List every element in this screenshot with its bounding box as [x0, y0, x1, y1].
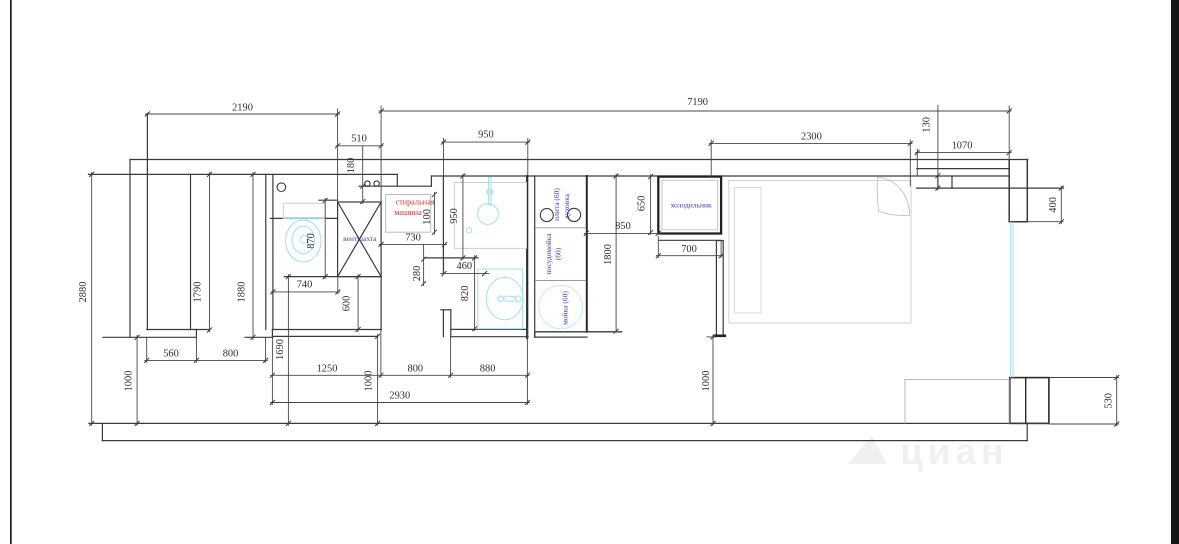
bottom right connector	[1026, 423, 1028, 440]
dim 400 line	[1060, 186, 1062, 224]
watermark	[848, 431, 1008, 472]
svg-text:циан: циан	[900, 431, 1008, 472]
dim 180 line	[362, 146, 364, 204]
dim 650 line	[650, 174, 652, 235]
dim 1690 line	[287, 274, 289, 425]
svg-text:1790: 1790	[192, 282, 203, 303]
toilet top ledge line	[319, 199, 338, 201]
svg-text:2880: 2880	[78, 282, 89, 303]
toilet tank	[283, 203, 325, 218]
dim 1000 left line	[136, 335, 138, 426]
corridor band mid top	[272, 329, 381, 331]
svg-text:2930: 2930	[389, 391, 410, 402]
dim 950 top line	[441, 141, 530, 143]
wall left inner	[146, 114, 148, 330]
shower room bottom wall	[424, 257, 478, 259]
ext 1250 left / 2930	[271, 336, 273, 404]
wall stub under 1880	[245, 336, 273, 338]
right photo black bar	[1171, 0, 1179, 544]
bottom left connector	[101, 423, 103, 440]
corridor band mid left jamb	[271, 330, 273, 337]
wall window niche bottom	[917, 187, 1064, 189]
dim 100 line	[433, 192, 435, 234]
svg-text:280: 280	[412, 266, 423, 282]
bath bottom band	[451, 328, 527, 330]
dim 280 line	[423, 244, 425, 286]
wall niche bottom	[359, 185, 431, 187]
dim 1880 line	[252, 172, 254, 340]
riser circle 2	[374, 181, 379, 186]
washbasin oval	[486, 277, 523, 319]
svg-text:600: 600	[341, 296, 352, 312]
svg-text:530: 530	[1103, 393, 1114, 409]
svg-text:650: 650	[636, 196, 647, 212]
ext 530 bottom	[1049, 423, 1119, 425]
balcony gray rect	[905, 380, 1009, 424]
kitchen counter divider 1	[536, 227, 585, 229]
dim 700 line	[656, 255, 723, 257]
dimension texts horizontal	[163, 97, 972, 402]
kitchen-room wall bottom cap	[715, 334, 725, 337]
left photo edge line	[10, 0, 12, 544]
toilet duct line	[271, 217, 338, 219]
right pier right	[1026, 160, 1028, 222]
bed pillow	[735, 188, 762, 314]
wall bottom-left band bottom	[103, 336, 196, 338]
wall top inner right	[431, 175, 938, 177]
svg-text:510: 510	[351, 134, 367, 145]
fridge box	[658, 177, 721, 234]
dim 460 line	[440, 273, 489, 275]
dim 7190 line	[379, 110, 1012, 112]
svg-text:духовка: духовка	[562, 193, 571, 219]
kitchen sink circle	[539, 285, 583, 329]
ext at 450.4	[450, 337, 452, 378]
ext 560 left	[146, 337, 148, 362]
corridor band mid bottom	[272, 335, 377, 337]
dim 130 line	[937, 105, 939, 190]
toilet room bottom line	[284, 276, 381, 278]
hall lamp circle	[277, 183, 286, 192]
vanity unit rect	[478, 269, 523, 329]
svg-text:посудомойка: посудомойка	[544, 233, 553, 275]
svg-text:холодильник: холодильник	[671, 200, 712, 209]
wall jamb	[195, 330, 197, 338]
svg-text:1000: 1000	[124, 371, 135, 392]
ext 460 mini	[443, 258, 445, 274]
svg-text:плита (60): плита (60)	[552, 188, 561, 221]
svg-text:880: 880	[480, 363, 496, 374]
svg-text:1800: 1800	[603, 244, 614, 265]
kitchen counter divider 2	[536, 280, 585, 282]
wall window niche step	[937, 176, 939, 188]
bottom-right box	[1010, 378, 1049, 424]
label texts	[343, 188, 712, 325]
dim 2880 line	[91, 172, 93, 426]
dim 510 line	[336, 145, 384, 147]
ext line vent left up	[337, 109, 339, 203]
bottom second line	[102, 440, 1027, 442]
svg-text:730: 730	[405, 232, 421, 243]
shower head circle	[486, 188, 494, 196]
riser circle 1	[365, 181, 370, 186]
shower small circle	[466, 228, 471, 233]
wall window sill line	[917, 168, 1009, 170]
svg-text:130: 130	[921, 117, 932, 133]
toilet bowl outer	[286, 220, 321, 262]
ext at 380.6	[380, 330, 382, 378]
dim 560-800 line	[144, 359, 268, 361]
window glazing lines	[1009, 222, 1011, 378]
ext 800 right	[265, 337, 267, 362]
ext 700 left	[657, 236, 659, 258]
burner circle 2	[567, 208, 580, 221]
ext 950 top right	[527, 138, 529, 176]
bed outline	[729, 181, 911, 324]
dim 1000 mid line	[377, 334, 379, 426]
burner circle 1	[540, 209, 553, 222]
vent shaft box	[338, 202, 382, 277]
bath left wall	[442, 176, 444, 274]
right pier left	[1008, 160, 1010, 222]
dim 870 line	[324, 198, 326, 279]
svg-text:740: 740	[297, 280, 313, 291]
closet right edge	[190, 174, 192, 329]
kitchen-room wall top cap	[716, 240, 723, 242]
svg-text:820: 820	[460, 286, 471, 302]
wall top outer	[130, 159, 1028, 161]
ext 700 right	[720, 240, 722, 258]
wall left outer	[129, 160, 131, 338]
cyan fixtures	[283, 177, 1013, 377]
ext 530 top	[1049, 377, 1119, 379]
kitchen bottom cap	[535, 331, 622, 333]
shower column	[489, 177, 491, 205]
ext 1000 right top	[707, 336, 717, 338]
dim 1790 line	[209, 172, 211, 332]
dim 1070 line	[915, 152, 1012, 154]
bath left wall lower piece	[442, 310, 444, 337]
ext line vent right up	[380, 106, 382, 203]
dim 1800 line	[615, 174, 617, 332]
wall niche step left	[396, 174, 398, 186]
ext 2300 left	[710, 139, 712, 176]
svg-text:1000: 1000	[363, 371, 374, 392]
dim 1250-800-880 line	[270, 374, 530, 376]
svg-text:2300: 2300	[801, 131, 822, 142]
ext line 7190 right	[1008, 106, 1010, 161]
svg-text:850: 850	[615, 221, 631, 232]
svg-text:100: 100	[422, 209, 433, 225]
right pier bottom	[1009, 221, 1027, 223]
dimension ticks	[89, 109, 1119, 427]
window divider	[951, 176, 953, 188]
dim 820 line	[474, 255, 476, 331]
toilet partition left line	[265, 174, 267, 329]
svg-text:вентшахта: вентшахта	[343, 234, 377, 243]
dim 2930 line	[270, 402, 530, 404]
toilet partition right line	[272, 174, 274, 329]
label washing machine	[394, 198, 435, 217]
wall top inner left (with 2880 extension)	[89, 173, 398, 175]
ext at 527.4	[526, 329, 528, 405]
dim 850 line	[584, 232, 661, 234]
bottom-right box divider	[1025, 378, 1027, 424]
dim 950 vert line	[462, 174, 464, 260]
ext 2300 right	[909, 139, 911, 186]
svg-text:560: 560	[163, 349, 179, 360]
dimension lines	[92, 105, 1119, 426]
counter line below fridge	[659, 239, 721, 241]
door swing arc	[878, 177, 910, 215]
wall window niche top line	[938, 175, 1009, 177]
bottom main line	[89, 422, 1049, 424]
dim 530 line	[1116, 375, 1118, 426]
fridge inner gray	[662, 180, 717, 230]
svg-text:870: 870	[306, 233, 317, 249]
wall bottom-left band top	[147, 329, 210, 331]
svg-text:1250: 1250	[317, 363, 338, 374]
kitchen-room wall right line	[722, 241, 724, 336]
svg-text:180: 180	[346, 158, 357, 174]
svg-text:950: 950	[478, 130, 494, 141]
svg-text:2190: 2190	[232, 103, 253, 114]
dim 2190 line	[145, 113, 340, 115]
dim 600 line	[357, 274, 359, 332]
svg-text:800: 800	[223, 349, 239, 360]
svg-text:400: 400	[1048, 197, 1059, 213]
dim 730 line	[379, 243, 447, 245]
kitchen-room wall left line	[715, 241, 717, 336]
svg-text:700: 700	[681, 244, 697, 255]
ext 740 right	[337, 277, 339, 295]
svg-text:1000: 1000	[701, 371, 712, 392]
bath right wall second line	[534, 176, 536, 337]
ext 1070 left	[916, 149, 918, 176]
kitchen right wall	[586, 176, 588, 332]
wall below vent shaft	[380, 277, 382, 330]
toilet flush circle	[300, 235, 308, 243]
svg-text:950: 950	[449, 208, 460, 224]
svg-text:460: 460	[457, 261, 473, 272]
black symbol circles	[277, 181, 581, 222]
svg-text:машина: машина	[394, 208, 422, 217]
svg-text:1880: 1880	[237, 282, 248, 303]
svg-text:1690: 1690	[275, 339, 286, 360]
shower drain circle	[478, 204, 499, 225]
shower tray	[454, 183, 526, 249]
svg-text:стиральная: стиральная	[396, 198, 435, 207]
gray furniture	[386, 177, 1009, 423]
wall niche step right	[430, 176, 432, 186]
dimension texts vertical	[78, 117, 1115, 409]
svg-text:1070: 1070	[952, 140, 973, 151]
svg-text:7190: 7190	[687, 97, 708, 108]
washing machine outline	[386, 195, 431, 233]
svg-text:800: 800	[408, 363, 424, 374]
dim 1000 right line	[712, 335, 714, 426]
ext 400 bottom	[1027, 221, 1063, 223]
ext 560 right	[195, 337, 197, 362]
svg-text:(60): (60)	[553, 247, 562, 260]
washbasin faucet	[498, 296, 521, 302]
svg-text:мойка (60): мойка (60)	[561, 291, 570, 325]
bath right wall thick	[526, 176, 528, 338]
toilet bowl inner	[292, 226, 315, 253]
dim 740 line	[271, 291, 341, 293]
ext 950 top left	[443, 138, 445, 176]
dim 2300 line	[709, 142, 913, 144]
